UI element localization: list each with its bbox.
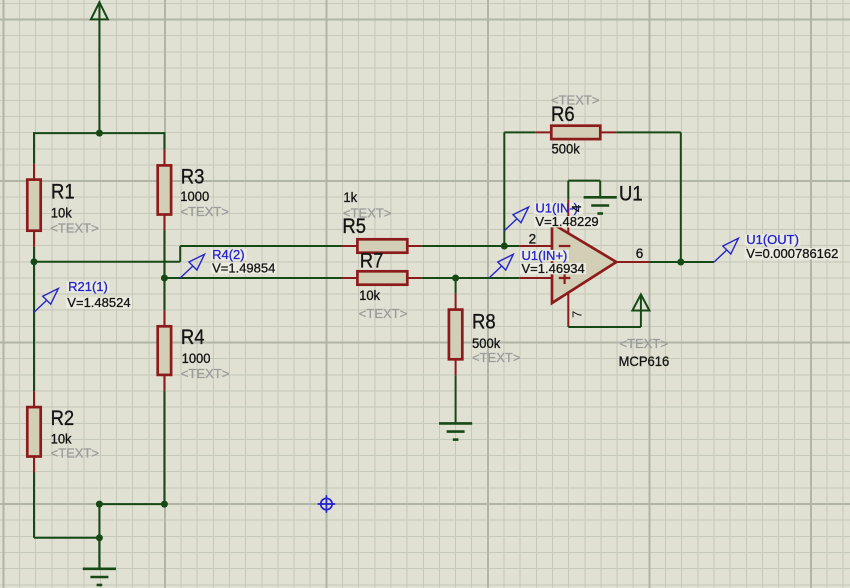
svg-text:1000: 1000 xyxy=(182,351,211,367)
wire R1 to node xyxy=(33,247,35,262)
svg-text:6: 6 xyxy=(636,246,644,261)
wire to R5 xyxy=(180,245,341,247)
power arrow pin7 xyxy=(632,294,649,310)
resistor R8 xyxy=(449,310,462,360)
wire R7 rail xyxy=(164,277,341,279)
wire op-amp pin 3 xyxy=(519,277,552,279)
node IN- junction xyxy=(501,243,508,250)
svg-text:U1: U1 xyxy=(619,182,643,205)
wire R5 right pin xyxy=(407,245,422,247)
wire R8 top pin xyxy=(455,294,457,310)
probe U1(OUT) xyxy=(714,232,840,262)
svg-text:7: 7 xyxy=(569,311,584,318)
wire R6 right pin xyxy=(600,131,616,133)
svg-text:<TEXT>: <TEXT> xyxy=(51,445,99,460)
wire pin4 gnd loop xyxy=(567,181,569,200)
probe R4(2) xyxy=(180,247,277,278)
wire R3 top pin xyxy=(163,149,165,165)
power VCC arrow top-left xyxy=(91,2,108,19)
wire R1 top xyxy=(33,132,35,164)
wire op-amp pin 2 xyxy=(519,245,552,247)
wire output xyxy=(649,261,714,263)
svg-text:R6: R6 xyxy=(551,103,575,126)
svg-text:V=1.48229: V=1.48229 xyxy=(535,214,598,229)
ground R8 xyxy=(455,375,457,423)
wire R5 to junction xyxy=(422,245,519,247)
wire bottom rail xyxy=(34,537,99,539)
wire R5 left pin xyxy=(342,245,358,247)
wire mid rail xyxy=(99,503,164,505)
node output junction xyxy=(677,259,684,266)
wire R4(2) step vertical xyxy=(179,246,181,262)
svg-text:500k: 500k xyxy=(472,335,500,351)
probe U1(IN-) with pin 4 number xyxy=(504,219,517,231)
resistor R6 xyxy=(551,126,600,139)
svg-text:1000: 1000 xyxy=(180,189,209,205)
wire gnd riser xyxy=(98,504,100,568)
svg-text:U1(OUT): U1(OUT) xyxy=(746,232,799,247)
wire op-amp output pin 6 xyxy=(616,261,649,263)
svg-text:<TEXT>: <TEXT> xyxy=(50,220,98,235)
node R1-R2 junction xyxy=(31,258,38,265)
svg-text:V=1.49854: V=1.49854 xyxy=(212,260,275,275)
node mid-right junction xyxy=(161,501,168,508)
wire R1 bottom pin xyxy=(33,231,35,247)
wire R8 bottom pin xyxy=(455,359,457,375)
wire R3 bottom xyxy=(163,231,165,279)
wire op-amp pin 7 xyxy=(567,293,569,327)
probe U1(IN+) xyxy=(489,248,586,278)
wire R1 top pin xyxy=(33,164,35,180)
wire R4 bottom xyxy=(163,391,165,504)
svg-text:4: 4 xyxy=(569,205,584,212)
wire R4(2) step horizontal xyxy=(34,261,180,263)
wire R6 left pin xyxy=(535,131,551,133)
svg-text:V=0.000786162: V=0.000786162 xyxy=(746,246,838,261)
wire R4 to node xyxy=(163,278,165,310)
resistor R3 xyxy=(158,165,171,214)
svg-text:V=1.46934: V=1.46934 xyxy=(522,261,585,276)
svg-text:1k: 1k xyxy=(343,190,357,206)
wire R2 top pin xyxy=(33,391,35,407)
svg-text:MCP616: MCP616 xyxy=(619,353,670,369)
svg-text:R4: R4 xyxy=(181,326,205,349)
origin marker xyxy=(318,495,336,513)
svg-text:R1: R1 xyxy=(51,180,75,203)
wire R7 left pin xyxy=(342,277,358,279)
wire power stem xyxy=(98,5,100,134)
svg-text:<TEXT>: <TEXT> xyxy=(181,204,229,219)
op-amp U1 xyxy=(552,224,616,304)
svg-text:R7: R7 xyxy=(360,249,384,272)
svg-text:<TEXT>: <TEXT> xyxy=(472,350,520,365)
wire pin7 riser xyxy=(640,296,642,328)
wire R4 top pin xyxy=(163,310,165,326)
op-amp minus marker xyxy=(559,245,571,247)
svg-text:<TEXT>: <TEXT> xyxy=(620,336,668,351)
resistor R1 xyxy=(27,180,40,231)
wire R7 to junction xyxy=(422,277,519,279)
op-amp plus marker xyxy=(559,277,571,279)
wire R3 to top rail xyxy=(163,132,165,149)
ground bottom-left xyxy=(98,538,100,569)
svg-text:R3: R3 xyxy=(181,165,205,188)
svg-text:2: 2 xyxy=(529,232,537,247)
resistor R4 xyxy=(158,326,171,375)
wire R6 left horizontal xyxy=(504,131,535,133)
svg-text:R2: R2 xyxy=(51,407,75,430)
svg-text:R21(1): R21(1) xyxy=(68,279,108,294)
wire R4 bottom pin xyxy=(163,375,165,391)
node R3-R4-R7 junction xyxy=(161,275,168,282)
resistor R7 xyxy=(357,271,407,284)
svg-text:10k: 10k xyxy=(51,431,72,447)
wire R8 top xyxy=(455,278,457,294)
node mid-left junction xyxy=(96,501,103,508)
svg-text:10k: 10k xyxy=(359,287,380,303)
node bottom-left junction xyxy=(96,534,103,541)
probe R21(1) xyxy=(34,279,132,312)
wire R7 right pin xyxy=(407,277,422,279)
svg-text:<TEXT>: <TEXT> xyxy=(181,366,229,381)
wire R6 left vertical xyxy=(503,132,505,246)
svg-text:10k: 10k xyxy=(51,205,72,221)
wire R6 right horizontal xyxy=(616,131,681,133)
wire R2 to bottom rail xyxy=(33,473,35,538)
ground op-amp pin4 xyxy=(599,181,601,198)
wire pin7 horizontal xyxy=(568,326,641,328)
node R8 junction xyxy=(452,275,459,282)
svg-text:R5: R5 xyxy=(342,215,366,238)
wire R3 bottom pin xyxy=(163,215,165,231)
wire R2 bottom pin xyxy=(33,457,35,473)
svg-text:500k: 500k xyxy=(552,141,580,157)
resistor R5 xyxy=(357,239,407,252)
resistor R2 xyxy=(27,407,40,456)
wire R6 right vertical xyxy=(680,132,682,262)
svg-text:R8: R8 xyxy=(472,311,496,334)
svg-text:<TEXT>: <TEXT> xyxy=(359,306,407,321)
node top junction xyxy=(96,130,103,137)
svg-text:V=1.48524: V=1.48524 xyxy=(67,295,130,310)
wire top rail xyxy=(34,132,164,134)
wire R2 top xyxy=(33,262,35,391)
